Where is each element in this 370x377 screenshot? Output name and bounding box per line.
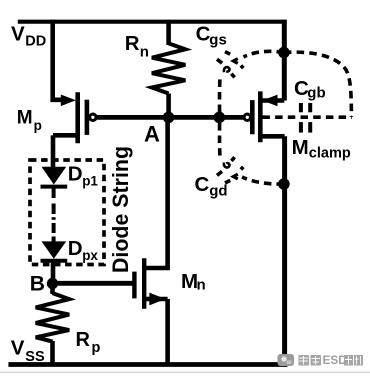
transistor Mp xyxy=(53,92,96,143)
wire Mclamp source to VSS rail xyxy=(282,136,287,364)
capacitor Cgs label xyxy=(196,22,227,48)
svg-text:A: A xyxy=(144,121,160,146)
svg-text:p: p xyxy=(92,340,101,356)
svg-text:gs: gs xyxy=(209,31,227,48)
Mclamp bulk dashed wire xyxy=(262,115,352,119)
svg-text:DD: DD xyxy=(25,34,46,50)
Mclamp source junction xyxy=(278,178,290,190)
node A junction xyxy=(163,112,175,124)
wire VDD to Rn xyxy=(166,20,171,45)
watermark icon xyxy=(278,354,295,366)
svg-text:px: px xyxy=(82,248,98,263)
svg-text:R: R xyxy=(125,32,140,55)
transistor Mclamp xyxy=(244,91,285,142)
Dp1 label xyxy=(68,162,99,188)
transistor Mn xyxy=(134,258,167,309)
VSS rail xyxy=(8,362,287,367)
capacitor Cgb arc (drain to bulk) xyxy=(284,52,352,117)
svg-text:M: M xyxy=(17,107,33,128)
svg-text:gd: gd xyxy=(209,182,227,199)
svg-text:Diode String: Diode String xyxy=(108,146,133,273)
svg-text:ESD: ESD xyxy=(323,353,348,367)
wire Dpx to node B xyxy=(51,261,56,283)
capacitor Cgb label xyxy=(294,77,326,101)
watermark underline xyxy=(0,371,370,373)
capacitor Cgd dashed connection xyxy=(217,123,284,184)
node A wire (Mp gate to Mclamp gate) xyxy=(97,115,244,120)
svg-text:V: V xyxy=(11,22,25,45)
svg-text:D: D xyxy=(68,237,83,260)
VSS label xyxy=(11,337,45,366)
wire node B to Mn gate xyxy=(53,281,133,286)
svg-text:C: C xyxy=(195,173,210,196)
svg-text:p1: p1 xyxy=(82,174,98,189)
svg-text:n: n xyxy=(197,276,206,293)
diode Dpx xyxy=(41,241,68,260)
Mclamp gate junction xyxy=(214,112,226,124)
wire node B to Rp xyxy=(50,284,55,295)
wire VDD rail to Mclamp drain xyxy=(282,20,287,101)
svg-text:V: V xyxy=(11,337,25,360)
watermark text xyxy=(299,353,364,367)
svg-text:n: n xyxy=(140,44,149,61)
capacitor Cgb plates xyxy=(301,103,310,133)
Rn label xyxy=(125,32,149,61)
node B junction xyxy=(47,278,58,289)
dash-dot wire Dp1 to Dpx xyxy=(52,187,56,242)
svg-text:B: B xyxy=(30,272,45,295)
Rp label xyxy=(76,329,101,356)
svg-text:D: D xyxy=(68,162,83,185)
VDD rail xyxy=(18,20,287,24)
capacitor Cgd label xyxy=(195,173,228,200)
svg-text:clamp: clamp xyxy=(309,145,351,161)
wire Rn to node A xyxy=(166,94,171,118)
Mn label xyxy=(181,270,206,293)
svg-text:p: p xyxy=(34,118,42,133)
diode Dp1 xyxy=(41,167,68,187)
resistor Rn xyxy=(152,43,185,93)
wire Mn source to VSS rail xyxy=(165,299,170,364)
svg-text:R: R xyxy=(76,329,91,351)
Mclamp drain junction xyxy=(278,47,290,59)
wire VDD to Mp source xyxy=(53,20,64,100)
capacitor Cgs dashed connection xyxy=(217,51,284,112)
Dpx label xyxy=(68,237,99,263)
resistor Rp xyxy=(36,293,69,341)
Mp label xyxy=(17,107,42,132)
wire node A to Mn drain xyxy=(146,117,168,268)
Mclamp label xyxy=(292,136,351,161)
svg-text:M: M xyxy=(292,136,309,159)
diode string box xyxy=(30,160,104,265)
svg-text:gb: gb xyxy=(307,84,325,101)
VDD label xyxy=(11,22,46,49)
wire Rp to VSS rail xyxy=(50,341,55,364)
wire Mp drain to diode string xyxy=(51,135,56,168)
